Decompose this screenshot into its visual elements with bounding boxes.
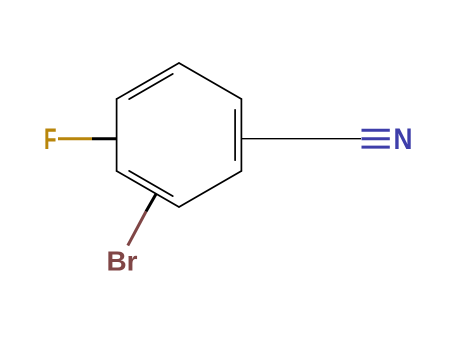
wire ring edge D-E (lower-right) <box>179 171 241 207</box>
triple bond C≡N (blue) <box>362 130 390 147</box>
wire ring edge C-D (lower-left) <box>117 171 179 207</box>
bond C4-F outer half (gold, F side) <box>58 137 92 140</box>
bond C3-Br inner half (black, ring side) <box>146 194 156 212</box>
svg-text:Br: Br <box>107 246 138 277</box>
bond C3-Br outer half (maroon, Br side) <box>128 212 146 246</box>
bond C1 to nitrile carbon <box>241 138 361 140</box>
wire ring edge F-A (upper-right) <box>179 63 241 99</box>
wire ring edge E-F (right, vertical) <box>240 99 242 171</box>
svg-text:N: N <box>394 123 413 156</box>
wire double bond inner line A-B <box>129 74 173 99</box>
svg-text:F: F <box>44 123 57 156</box>
wire double bond inner line C-D <box>129 171 173 196</box>
wire double bond inner line E-F <box>234 110 236 160</box>
bond C4-F inner half (black, ring side) <box>92 137 117 140</box>
wire ring edge A-B (upper-left) <box>117 63 179 99</box>
benzene ring <box>117 63 242 207</box>
wire ring edge B-C (left, vertical) <box>116 99 118 171</box>
